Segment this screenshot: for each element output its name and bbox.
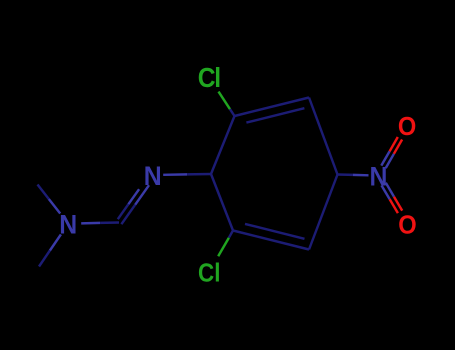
bond N(CH3)2 to upper methyl carbon bbox=[49, 199, 60, 214]
benzene ring bond C3-C4 bbox=[309, 98, 338, 175]
svg-text:N: N bbox=[59, 211, 77, 240]
benzene ring bond C5-C6 outer bbox=[233, 231, 309, 250]
bond N(CH3)2 to formamidine CH bbox=[81, 222, 100, 225]
svg-text:O: O bbox=[398, 212, 416, 240]
bond ring C6 to chlorine (bottom) bbox=[218, 238, 229, 257]
benzene ring bond C5-C6 inner double line bbox=[245, 224, 305, 239]
bond N(CH3)2 to lower methyl carbon bbox=[50, 234, 61, 250]
benzene ring bond C4-C5 bbox=[309, 175, 338, 250]
nitro N=O double bond (lower) bbox=[382, 185, 390, 199]
bond amidine N to ring C1 bbox=[163, 173, 187, 176]
svg-text:O: O bbox=[398, 113, 416, 141]
benzene ring bond C1-C2 bbox=[211, 116, 235, 174]
benzene ring bond C2-C3 outer bbox=[235, 98, 310, 117]
nitro N=O double bond (upper) bbox=[386, 154, 394, 168]
bond ring C2 to chlorine (top) bbox=[219, 92, 231, 110]
svg-text:N: N bbox=[144, 162, 162, 191]
amidine C=N double bond bbox=[121, 205, 135, 225]
svg-text:Cl: Cl bbox=[198, 259, 220, 288]
svg-text:N: N bbox=[370, 162, 388, 191]
benzene ring bond C2-C3 inner double line bbox=[246, 108, 304, 122]
svg-text:Cl: Cl bbox=[198, 61, 220, 93]
bond ring C4 to nitro N bbox=[338, 173, 354, 176]
benzene ring bond C6-C1 bbox=[211, 174, 233, 231]
